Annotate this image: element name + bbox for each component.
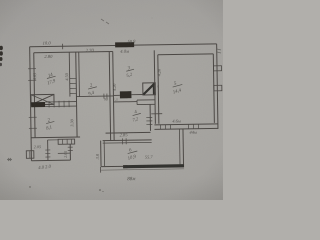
mid room right wall line1 xyxy=(109,52,110,141)
small mark left-bottom xyxy=(7,158,12,161)
window tick left wall lower2 xyxy=(29,127,37,129)
kitchen top wall xyxy=(114,101,137,103)
small room bottom wall xyxy=(113,94,119,96)
chimney black bar on top wall xyxy=(115,42,134,47)
lower bottom wall underline xyxy=(101,169,184,170)
veranda right wall outer xyxy=(182,129,185,164)
porch inner tick xyxy=(29,151,31,158)
hall right wall ticks xyxy=(68,147,73,151)
bottom wall window ticks xyxy=(160,124,198,129)
veranda right wall inner xyxy=(178,129,181,164)
stove box diagonal1 xyxy=(31,94,54,104)
mid room bottom wall xyxy=(76,95,113,98)
film grain xyxy=(0,0,223,200)
partition rooms1-2 ladder top xyxy=(45,101,76,103)
kitchen top-right double wall upper xyxy=(137,99,155,101)
inner top wall xyxy=(34,51,113,52)
flue wall left line xyxy=(76,52,77,137)
window tick left wall upper2 xyxy=(28,79,36,81)
big room top wall xyxy=(158,53,213,56)
room1 fraction bar xyxy=(47,76,56,79)
inner left wall xyxy=(34,53,35,138)
lower room left wall line1 xyxy=(100,141,102,166)
top-left corner shade xyxy=(0,0,223,200)
mid room fraction bar xyxy=(88,86,97,89)
outer top wall xyxy=(30,44,217,47)
stove box room1 xyxy=(31,94,54,104)
hall partition vertical xyxy=(47,140,49,160)
outer left wall xyxy=(30,47,32,161)
lower room top door ticks xyxy=(123,138,127,144)
window tick left wall lower xyxy=(29,116,37,118)
window sill right lower xyxy=(214,85,222,91)
below-wall end tick xyxy=(100,167,102,173)
band ticks xyxy=(63,139,72,144)
paper specks xyxy=(29,18,152,192)
kitchen bottom wall xyxy=(106,131,151,134)
small room bottom wall right part xyxy=(131,93,142,95)
window sill right upper xyxy=(213,66,221,71)
small room fraction bar xyxy=(126,69,134,72)
mid room right wall line2 xyxy=(113,51,114,140)
outer right wall xyxy=(217,44,218,129)
kitchen right wall xyxy=(149,104,151,130)
porch box left xyxy=(26,151,34,159)
lower room top wall line1 xyxy=(103,139,152,142)
room1 right wall xyxy=(68,52,71,96)
left block bottom wall xyxy=(31,136,80,139)
hall step line xyxy=(58,152,70,154)
big room fraction bar xyxy=(173,84,183,87)
hall door ticks xyxy=(45,150,50,157)
black flue box kitchen top xyxy=(120,91,132,98)
big room right wall xyxy=(213,54,214,123)
stove box diagonal2 xyxy=(31,94,54,104)
lobby line xyxy=(151,113,162,115)
big room bottom wall upper line xyxy=(154,123,217,126)
kitchen top-right wall endcap xyxy=(136,100,138,104)
room2 fraction bar xyxy=(46,121,54,124)
partition ladder ticks xyxy=(49,101,69,108)
boiler dark right edge xyxy=(153,83,155,94)
partition rooms1-2 ladder bottom xyxy=(45,105,76,107)
edge vignette xyxy=(0,0,223,200)
mid room door ticks xyxy=(104,94,110,99)
lower bottom wall thin left xyxy=(101,165,123,167)
small mark right margin xyxy=(217,49,221,53)
dimension tick top-left xyxy=(62,44,64,49)
lower room fraction bar xyxy=(128,151,138,154)
faint mark top center xyxy=(101,19,109,24)
hall right wall xyxy=(69,144,71,160)
faint label near kitchen top xyxy=(113,84,160,103)
paper background xyxy=(0,0,223,200)
bottom-left outer wall xyxy=(31,159,70,162)
lower room top wall line2 xyxy=(103,141,152,144)
kitchen fraction bar xyxy=(133,113,141,116)
big room left wall inner xyxy=(158,55,159,124)
kitchen top-right double wall lower xyxy=(137,103,155,105)
kitchen door ticks xyxy=(146,117,152,124)
thick band right of room2 xyxy=(58,139,75,144)
window tick left wall upper xyxy=(28,68,36,70)
lower room left wall line2 xyxy=(103,141,105,166)
boiler X-box xyxy=(143,83,156,95)
boiler diagonal thick xyxy=(143,83,155,94)
room2(mid) left wall xyxy=(78,52,81,97)
bottom wall second line xyxy=(48,139,59,141)
top edge shade xyxy=(0,0,223,200)
big room left wall outer xyxy=(154,50,155,123)
flue ladder ticks xyxy=(70,79,77,94)
bottom shadow band xyxy=(0,0,223,200)
black wall bar under stove xyxy=(31,102,45,107)
big room bottom wall lower line xyxy=(154,127,217,130)
lower bottom wall thick dark xyxy=(123,164,184,168)
left margin stamp digits xyxy=(0,46,3,66)
